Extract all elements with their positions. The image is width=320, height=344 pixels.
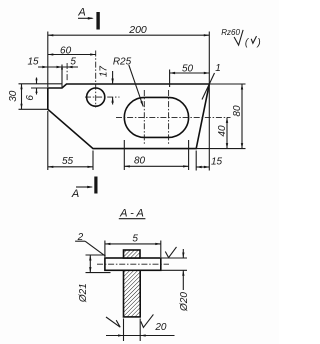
- dim 60: [48, 54, 96, 56]
- svg-text:20: 20: [154, 322, 167, 333]
- svg-text:5: 5: [132, 234, 138, 245]
- dim 50: [170, 72, 210, 74]
- dim 80 right: [241, 84, 243, 149]
- extension y109.3 left: [19, 108, 48, 110]
- svg-text:A - A: A - A: [119, 207, 144, 219]
- extension 80 left: [123, 140, 125, 170]
- dim 40: [226, 117, 228, 148]
- svg-text:50: 50: [182, 63, 194, 74]
- surface finish Rz60: [234, 30, 243, 45]
- extension x62 (step end): [61, 65, 63, 89]
- svg-text:40: 40: [217, 125, 228, 137]
- centerline slot right arc: [168, 90, 170, 144]
- svg-text:80: 80: [232, 105, 243, 117]
- surface mark flange top: [165, 247, 176, 258]
- plate outline: [48, 84, 210, 149]
- dim 15 bottom: [196, 166, 209, 168]
- svg-text:Rz60: Rz60: [221, 28, 240, 37]
- svg-text:2: 2: [77, 232, 84, 243]
- dim D20: [161, 257, 187, 259]
- svg-text:Ø20: Ø20: [179, 292, 190, 312]
- svg-text:30: 30: [8, 90, 19, 102]
- dim 200: [48, 34, 210, 36]
- hole (small circle): [87, 88, 105, 106]
- slot (obround R25): [124, 97, 188, 137]
- label 1 leader: [202, 73, 215, 100]
- surface mark stem right: [141, 314, 154, 327]
- extension y83.8 left: [19, 83, 63, 85]
- section centerline: [97, 263, 169, 265]
- svg-text:15: 15: [27, 56, 39, 67]
- dim 55: [48, 166, 93, 168]
- extension top edge right: [209, 83, 245, 85]
- svg-text:): ): [256, 38, 260, 49]
- svg-text:55: 55: [62, 156, 74, 167]
- svg-text:R25: R25: [113, 57, 132, 68]
- surface mark stem left: [106, 317, 120, 327]
- dim 15 top-left: [38, 66, 78, 68]
- section mark A top: [96, 12, 99, 30]
- svg-text:5: 5: [70, 57, 76, 68]
- dim 6: [36, 78, 38, 84]
- section mark A bottom: [94, 177, 97, 194]
- dim 5 top: [57, 66, 63, 68]
- extension 50 left: [169, 70, 171, 88]
- extension 15 left: [195, 151, 197, 171]
- svg-text:200: 200: [128, 24, 147, 36]
- section boss (hatched): [124, 250, 141, 258]
- section stem (hatched): [124, 270, 141, 317]
- centerline slot left arc: [143, 90, 145, 144]
- label 2 leader: [75, 240, 85, 242]
- svg-text:Ø21: Ø21: [78, 283, 89, 303]
- svg-text:60: 60: [60, 45, 72, 56]
- dim 20: [123, 319, 125, 342]
- svg-text:6: 6: [25, 95, 36, 101]
- svg-text:1: 1: [215, 63, 221, 74]
- extension right corner: [208, 32, 210, 171]
- svg-text:80: 80: [134, 156, 146, 167]
- dim 30: [21, 84, 23, 110]
- dim 17: [112, 71, 114, 84]
- extension dashline x67: [66, 63, 68, 82]
- centerline circle vertical: [95, 51, 97, 108]
- extension 80 right: [188, 140, 190, 170]
- section bar (plate): [105, 258, 161, 270]
- extension bottom edge right: [196, 148, 245, 150]
- label R25 leader: [129, 65, 143, 107]
- dim 80 bottom: [124, 165, 188, 167]
- centerline circle horizontal: [85, 96, 120, 98]
- extension y88 left: [31, 87, 48, 89]
- extension left edge: [47, 32, 49, 88]
- dim D21: [86, 254, 106, 256]
- extension 55 left (edge extended): [47, 111, 49, 170]
- centerline slot horizontal: [116, 116, 231, 118]
- svg-text:17: 17: [98, 66, 109, 78]
- svg-text:A: A: [77, 7, 85, 19]
- svg-text:A: A: [71, 188, 79, 200]
- extension 55 right: [92, 151, 94, 171]
- svg-text:15: 15: [211, 157, 223, 168]
- dim 5 section: [104, 241, 106, 258]
